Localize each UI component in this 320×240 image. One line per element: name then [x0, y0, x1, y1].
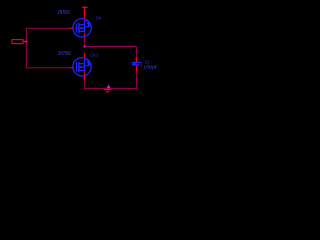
- svg-text:D: D: [96, 15, 100, 21]
- svg-text:C1: C1: [145, 59, 149, 64]
- svg-text:DO: DO: [90, 52, 98, 58]
- svg-text:2N7002: 2N7002: [58, 51, 70, 57]
- svg-text:2N7002: 2N7002: [58, 10, 70, 16]
- svg-text:100pF: 100pF: [143, 65, 158, 70]
